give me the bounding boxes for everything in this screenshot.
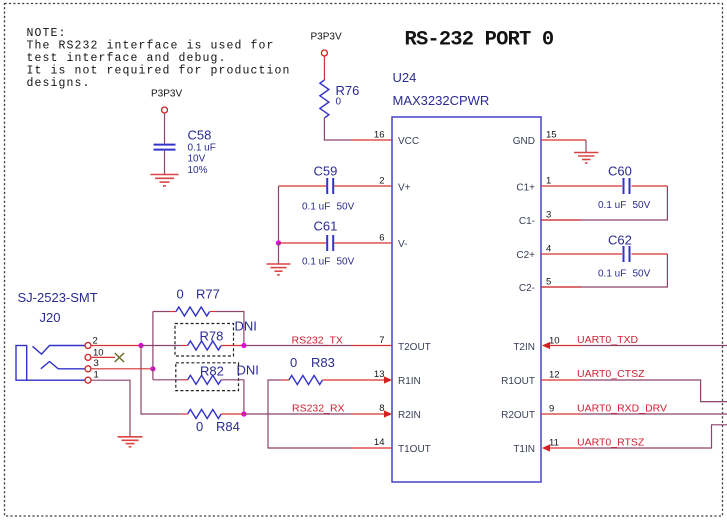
svg-text:9: 9 xyxy=(549,404,554,415)
svg-text:0.1 uF: 0.1 uF xyxy=(302,257,330,268)
svg-text:15: 15 xyxy=(546,130,557,141)
svg-text:C2-: C2- xyxy=(519,283,535,294)
wire T1OUT pin14 loop to R83 xyxy=(352,447,392,449)
capacitor C58 xyxy=(154,128,216,177)
svg-text:V-: V- xyxy=(398,239,407,250)
svg-text:DNI: DNI xyxy=(237,363,259,378)
wire jack pin 3 to junction xyxy=(91,368,153,370)
svg-text:5: 5 xyxy=(546,277,551,288)
ground (J20) xyxy=(118,437,143,447)
wire junction pin2 to R78 xyxy=(141,345,182,347)
svg-text:4: 4 xyxy=(546,244,551,255)
svg-text:U24: U24 xyxy=(393,70,417,85)
svg-text:RS-232 PORT 0: RS-232 PORT 0 xyxy=(405,29,554,52)
ground (C61) xyxy=(267,264,291,275)
node junction RX xyxy=(241,411,246,416)
svg-text:13: 13 xyxy=(374,369,385,380)
svg-text:1: 1 xyxy=(94,370,99,381)
wire RS232_TX to pin 7 xyxy=(244,345,352,347)
svg-text:0: 0 xyxy=(196,419,203,434)
wire junction pin2 down to R84 xyxy=(141,346,181,415)
power symbol P3P3V (C58) xyxy=(151,89,182,114)
svg-text:R83: R83 xyxy=(311,355,335,370)
power symbol P3P3V (R76) xyxy=(311,32,342,57)
wire P3P3V to C58 xyxy=(164,113,166,144)
svg-text:0.1 uF: 0.1 uF xyxy=(598,269,626,280)
svg-text:C2+: C2+ xyxy=(516,250,535,261)
resistor R83 xyxy=(281,355,335,385)
wire RS232_RX to pin 8 xyxy=(244,413,352,415)
svg-text:1: 1 xyxy=(546,176,551,187)
svg-text:T1OUT: T1OUT xyxy=(398,444,431,455)
svg-text:6: 6 xyxy=(379,233,384,244)
note text xyxy=(27,27,291,90)
wire C62 loop to pin 5 xyxy=(541,254,667,287)
svg-text:UART0_CTSZ: UART0_CTSZ xyxy=(577,368,645,380)
wire R83 to pin 13 xyxy=(323,379,385,381)
svg-text:V+: V+ xyxy=(398,183,411,194)
svg-text:10%: 10% xyxy=(188,165,208,176)
wire C58 to ground xyxy=(164,151,166,174)
svg-text:2: 2 xyxy=(93,336,98,347)
svg-text:R84: R84 xyxy=(216,419,240,434)
svg-text:C60: C60 xyxy=(608,164,632,179)
svg-text:C62: C62 xyxy=(608,233,632,248)
wire jack pin 10 to no-connect xyxy=(91,356,115,358)
svg-text:GND: GND xyxy=(513,136,535,147)
svg-text:R1OUT: R1OUT xyxy=(501,376,535,387)
svg-text:C1-: C1- xyxy=(519,216,535,227)
ground (C58) xyxy=(151,175,179,186)
DNI box R82 xyxy=(176,363,239,391)
svg-text:50V: 50V xyxy=(633,269,651,280)
resistor R82 xyxy=(188,364,224,385)
svg-text:P3P3V: P3P3V xyxy=(311,32,342,43)
svg-text:R78: R78 xyxy=(200,329,224,344)
svg-text:C1+: C1+ xyxy=(516,183,535,194)
svg-text:SJ-2523-SMT: SJ-2523-SMT xyxy=(18,290,98,305)
resistor R84 xyxy=(181,410,244,435)
DNI box R78 xyxy=(175,324,234,357)
wire C2+ pin 4 row xyxy=(541,253,622,255)
svg-text:10: 10 xyxy=(549,336,560,347)
svg-text:R77: R77 xyxy=(196,287,220,302)
node junction TX xyxy=(241,343,246,348)
capacitor C62 xyxy=(598,233,651,280)
capacitor C59 xyxy=(302,164,355,213)
capacitor C61 xyxy=(302,219,355,268)
svg-text:10V: 10V xyxy=(188,154,206,165)
wire R78 to junction TX xyxy=(221,345,244,347)
wire V- pin 6 row xyxy=(279,242,327,244)
svg-text:2: 2 xyxy=(379,176,384,187)
svg-text:R2OUT: R2OUT xyxy=(501,410,535,421)
node junction pin2 xyxy=(138,343,143,348)
resistor R76 xyxy=(320,80,359,118)
svg-text:C58: C58 xyxy=(188,128,212,143)
wire vertical R77/R82 branch xyxy=(152,312,154,380)
svg-text:MAX3232CPWR: MAX3232CPWR xyxy=(393,93,490,108)
svg-text:T2OUT: T2OUT xyxy=(398,342,431,353)
svg-text:0: 0 xyxy=(336,97,342,108)
svg-text:The RS232 interface is used fo: The RS232 interface is used for xyxy=(27,40,275,53)
wire UART0_CTSZ pin 12 xyxy=(541,379,581,381)
svg-text:8: 8 xyxy=(379,403,384,414)
wire R82 down to junction RX xyxy=(221,380,244,414)
svg-text:50V: 50V xyxy=(337,202,355,213)
svg-text:0.1 uF: 0.1 uF xyxy=(302,202,330,213)
wire jack pin 1 to ground xyxy=(91,380,130,436)
svg-text:11: 11 xyxy=(549,438,559,449)
svg-text:R1IN: R1IN xyxy=(398,376,421,387)
node junction pin3 xyxy=(150,366,155,371)
wire UART0_RXD_DRV pin 9 xyxy=(541,413,581,415)
svg-text:R82: R82 xyxy=(200,364,224,379)
no-connect X pin 10 xyxy=(115,353,124,362)
pin 8 arrow xyxy=(384,410,392,417)
svg-text:C61: C61 xyxy=(314,219,338,234)
wire to R77 xyxy=(153,311,170,313)
svg-text:R2IN: R2IN xyxy=(398,410,421,421)
svg-text:14: 14 xyxy=(374,437,385,448)
wire vertical to R82 xyxy=(153,379,182,381)
svg-text:0.1 uF: 0.1 uF xyxy=(598,200,626,211)
svg-text:UART0_RTSZ: UART0_RTSZ xyxy=(577,437,645,449)
wire GND pin 15 xyxy=(541,139,586,141)
resistor R77 xyxy=(176,287,220,317)
svg-text:50V: 50V xyxy=(633,200,651,211)
wire C1+ pin 1 row xyxy=(541,185,622,187)
resistor R78 xyxy=(188,329,224,351)
svg-text:C59: C59 xyxy=(314,164,338,179)
svg-text:T1IN: T1IN xyxy=(513,444,535,455)
wire UART0_RTSZ pin 11 xyxy=(542,444,550,451)
svg-text:7: 7 xyxy=(379,335,384,346)
svg-text:J20: J20 xyxy=(40,310,61,325)
svg-text:12: 12 xyxy=(549,370,560,381)
svg-text:UART0_TXD: UART0_TXD xyxy=(577,334,638,346)
svg-text:designs.: designs. xyxy=(27,77,91,90)
svg-text:DNI: DNI xyxy=(235,319,257,334)
svg-text:It is not required for product: It is not required for production xyxy=(27,65,291,78)
wire jack pin 2 to junction xyxy=(91,345,141,347)
connector J20 SJ-2523-SMT xyxy=(16,290,104,383)
svg-text:50V: 50V xyxy=(337,257,355,268)
svg-text:P3P3V: P3P3V xyxy=(151,89,182,100)
wire C60 loop to pin 3 xyxy=(541,186,667,220)
svg-text:3: 3 xyxy=(546,210,551,221)
wire R77 to right vertical xyxy=(210,311,216,313)
svg-text:0: 0 xyxy=(290,355,297,370)
wire junction to ground xyxy=(278,243,280,264)
svg-text:RS232_TX: RS232_TX xyxy=(292,335,343,347)
svg-text:16: 16 xyxy=(374,130,385,141)
wire R76 to VCC pin 16 xyxy=(324,118,352,140)
capacitor C60 xyxy=(598,164,651,212)
pin 13 arrow xyxy=(384,376,392,383)
svg-text:VCC: VCC xyxy=(398,136,419,147)
svg-text:NOTE:: NOTE: xyxy=(27,27,67,40)
wire C59 to C61 vertical xyxy=(278,186,280,243)
svg-text:0: 0 xyxy=(177,287,184,302)
svg-text:RS232_RX: RS232_RX xyxy=(292,403,345,415)
svg-text:0.1 uF: 0.1 uF xyxy=(188,143,216,154)
svg-text:UART0_RXD_DRV: UART0_RXD_DRV xyxy=(577,403,667,415)
ground (pin 15) xyxy=(574,153,599,164)
svg-text:T2IN: T2IN xyxy=(513,342,535,353)
svg-text:test interface and debug.: test interface and debug. xyxy=(27,52,227,65)
wire UART0_TXD pin 10 xyxy=(542,342,550,349)
wire V+ pin 2 row xyxy=(279,185,327,187)
IC U24 MAX3232CPWR xyxy=(392,70,541,482)
node junction C61 xyxy=(276,240,281,245)
wire P3P3V to R76 xyxy=(323,56,325,80)
svg-text:3: 3 xyxy=(94,358,99,369)
